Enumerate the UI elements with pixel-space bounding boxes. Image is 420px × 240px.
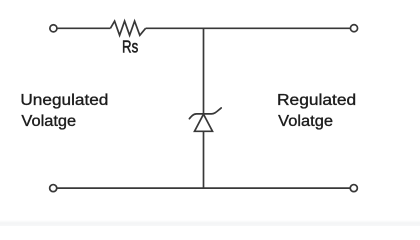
wire (vertical, top node down to zener cathode) [203, 28, 205, 114]
wire (zener anode down to bottom rail) [203, 131, 205, 189]
wire (bottom rail) [57, 187, 350, 189]
resistor Rs [110, 21, 145, 35]
svg-text:Volatge: Volatge [21, 113, 76, 130]
terminal (top-right output) [350, 25, 357, 32]
zener diode D1 (anode triangle) [195, 114, 213, 131]
node label: Regulated Volatge (output) [277, 92, 356, 130]
wire (top-left terminal to resistor) [57, 27, 110, 29]
wire (resistor to top-right terminal) [146, 27, 351, 29]
svg-text:Volatge: Volatge [278, 113, 333, 130]
terminal (top-left input) [50, 25, 57, 32]
terminal (bottom-right) [350, 185, 357, 192]
svg-text:Rs: Rs [122, 37, 138, 57]
zener diode D1 (cathode bar with bent ends) [189, 108, 221, 119]
node label: Unegulated Volatge (input) [20, 92, 108, 130]
terminal (bottom-left) [50, 185, 57, 192]
svg-text:Unegulated: Unegulated [20, 92, 108, 109]
svg-text:Regulated: Regulated [277, 92, 356, 109]
bottom divider band [0, 220, 420, 226]
